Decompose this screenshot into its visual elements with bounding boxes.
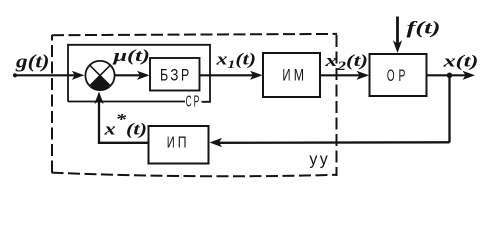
arrowhead output (463, 71, 476, 80)
arrowhead into ОР (357, 71, 370, 80)
arrowhead into БЗР (137, 71, 150, 80)
wire ИМ to ОР (320, 74, 364, 76)
wire feedback to ИП (214, 141, 450, 144)
box СР (solid inner box, bottom edge has gap for label) (68, 45, 210, 102)
wire ИП to summer (left then up) (99, 97, 149, 143)
dashed box УУ bottom edge (52, 173, 338, 177)
dashed box УУ top edge (52, 34, 337, 35)
box ОР (370, 54, 427, 96)
arrowhead up into summer (94, 92, 103, 105)
wire feedback down from output node (448, 75, 450, 142)
node start dot (13, 73, 17, 77)
svg-text:g(t): g(t) (15, 51, 50, 72)
svg-text:f(t): f(t) (407, 17, 441, 38)
svg-text:БЗР: БЗР (160, 65, 189, 84)
svg-text:x2(t): x2(t) (324, 51, 368, 73)
svg-text:x1(t): x1(t) (215, 49, 256, 71)
svg-text:μ(t): μ(t) (112, 46, 150, 65)
svg-text:ИМ: ИМ (282, 66, 304, 85)
box ИМ (263, 53, 320, 97)
svg-text:уу: уу (309, 149, 328, 168)
summing junction (85, 61, 114, 90)
arrowhead into ИМ (250, 71, 263, 80)
wire f(t) disturbance (396, 17, 399, 48)
node junction dot (447, 73, 453, 79)
svg-text:x(t): x(t) (442, 51, 478, 70)
box ИП (149, 126, 209, 164)
wire БЗР to ИМ (200, 74, 259, 76)
wire g(t) input (15, 74, 80, 76)
dashed box УУ right edge (336, 35, 338, 176)
summer filled bottom sector (90, 76, 111, 91)
dashed box УУ left edge (51, 35, 53, 173)
box БЗР (150, 58, 200, 91)
summer diagonal cross (90, 65, 111, 86)
wire summer to БЗР (115, 74, 145, 76)
arrowhead f(t) into ОР (393, 41, 402, 54)
wire output x(t) (427, 74, 471, 76)
arrowhead into summer (72, 71, 85, 80)
arrowhead into ИП (210, 138, 223, 147)
